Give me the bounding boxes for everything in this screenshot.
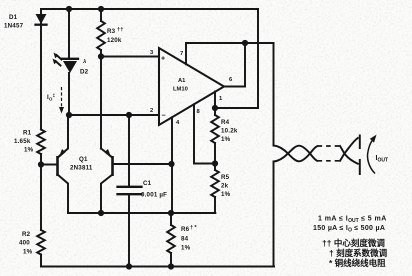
svg-text:D2: D2	[80, 69, 89, 76]
node junction D2 / left emitter / -input	[66, 112, 72, 118]
wire twisted pair lower-left column	[273, 162, 275, 267]
svg-text:Q1: Q1	[79, 156, 88, 163]
current arrow Iout	[368, 135, 377, 174]
wire collectors rail to R5	[68, 212, 215, 214]
op-amp A1 LM10 triangle	[159, 48, 224, 125]
label D1 1N457	[4, 14, 24, 30]
svg-text:R1: R1	[23, 130, 32, 137]
label R5 2k 1%	[221, 174, 231, 198]
node junction pin6 / pin7 wire	[242, 40, 248, 46]
resistor R6	[167, 213, 175, 267]
node junction collector rail / pin4-R6	[168, 210, 174, 216]
svg-text:84: 84	[181, 236, 189, 243]
svg-text:0.001 µF: 0.001 µF	[141, 192, 167, 199]
wire -input (pin 2)	[69, 114, 159, 116]
node junction pin1 / R4	[212, 105, 218, 111]
label R1 1.65k 1%	[14, 130, 34, 154]
svg-text:† *: † *	[190, 225, 197, 231]
node junction C1 / bottom rail	[126, 263, 132, 269]
label A1 LM10	[173, 78, 188, 93]
capacitor C1	[118, 115, 142, 267]
wire right column from top rail to pin1 node	[215, 9, 258, 108]
label minus input	[162, 113, 166, 120]
svg-text:7: 7	[180, 51, 183, 57]
svg-text:C1: C1	[143, 180, 152, 187]
svg-text:10.2k: 10.2k	[221, 128, 238, 135]
resistor R5	[211, 164, 219, 214]
note output current range	[318, 216, 387, 225]
wire +input (pin 3)	[101, 56, 159, 58]
node junction R4 / R5 / pin8	[212, 160, 218, 166]
wire pin 6 output	[224, 43, 245, 87]
label R2 400 1%	[19, 231, 33, 256]
node junction R3 / +input	[98, 53, 104, 59]
label pin 7	[180, 51, 183, 57]
label D2	[80, 69, 89, 76]
node junction right base / pin4 column	[168, 161, 174, 167]
wire pin 8	[194, 104, 215, 163]
svg-text:†† 中心刻度微调: †† 中心刻度微调	[322, 238, 385, 248]
svg-text:* 铜线绕线电阻: * 铜线绕线电阻	[329, 258, 386, 268]
svg-text:120k: 120k	[107, 37, 122, 44]
wire pin 7 riser	[185, 43, 187, 64]
wire left rail (V+ column)	[40, 9, 42, 267]
svg-text:2N3811: 2N3811	[70, 165, 93, 172]
label R6 dagger asterisk 84 1%	[181, 225, 197, 252]
wire Q1 left base	[41, 164, 58, 166]
wire D2 branch column	[68, 9, 70, 115]
label pin 3	[150, 50, 154, 56]
svg-text:−: −	[162, 113, 166, 120]
svg-text:400: 400	[19, 240, 30, 247]
svg-text:R3: R3	[107, 28, 116, 35]
wire feedback top horizontal (pin7 to twisted pair column)	[186, 42, 274, 44]
svg-text:R2: R2	[22, 231, 31, 238]
note Io current range	[313, 225, 385, 234]
svg-text:††: ††	[117, 27, 123, 33]
svg-text:R6: R6	[181, 226, 190, 233]
twisted pair wires	[274, 146, 318, 162]
Q1 left emitter with arrow	[58, 115, 69, 158]
svg-text:λ: λ	[82, 59, 86, 65]
label pin 8	[197, 109, 201, 115]
twisted pair right section	[340, 138, 358, 164]
svg-text:1%: 1%	[23, 249, 33, 256]
node junction R6 / bottom rail	[168, 263, 174, 269]
wire top supply rail	[41, 8, 258, 10]
label plus input	[161, 56, 165, 63]
wire pin 4 down	[171, 117, 172, 213]
note asterisk wirewound resistor	[329, 258, 386, 268]
wire pin 1	[214, 92, 216, 109]
Q1 left collector	[58, 175, 69, 214]
wire bottom return rail	[41, 266, 274, 268]
node junction R1 / Q1 base	[38, 161, 44, 167]
node junction C1 column / -input	[126, 112, 132, 118]
svg-text:1.65k: 1.65k	[14, 138, 31, 145]
svg-text:LM10: LM10	[173, 87, 188, 93]
node junction top rail / D2	[66, 6, 72, 12]
svg-text:A1: A1	[178, 78, 186, 84]
resistor R1	[37, 130, 45, 155]
svg-text:1%: 1%	[24, 147, 34, 154]
note dagger scale factor trim	[329, 248, 388, 258]
label pin 6	[229, 77, 233, 83]
label R4 10.2k 1%	[221, 119, 238, 143]
transistor Q1 left half (base bar)	[56, 156, 59, 176]
label lambda	[82, 59, 86, 65]
wire twisted pair upper-left column	[273, 43, 275, 146]
label Io	[47, 93, 56, 102]
svg-text:† 刻度系数微调: † 刻度系数微调	[329, 248, 388, 258]
svg-text:D1: D1	[9, 14, 18, 21]
transistor Q1 right half (base bar)	[111, 156, 114, 176]
svg-text:1%: 1%	[181, 245, 191, 252]
label pin 4	[176, 120, 180, 126]
label Iout	[376, 155, 389, 164]
wire Q1 right base to pin4 column	[113, 163, 172, 165]
resistor R3	[97, 9, 105, 57]
label pin 2	[150, 108, 153, 114]
svg-text:1%: 1%	[221, 136, 231, 143]
svg-text:+: +	[161, 56, 165, 63]
label Q1 2N3811	[70, 156, 93, 172]
diode D2 (photo)	[62, 59, 78, 73]
current arrow Io (dashed)	[59, 87, 64, 114]
svg-text:2k: 2k	[221, 183, 229, 190]
svg-text:R5: R5	[221, 174, 230, 181]
diode D1 1N457	[36, 14, 47, 25]
label C1 0.001 uF	[141, 180, 167, 199]
svg-text:R4: R4	[221, 119, 230, 126]
label R3 dagger-dagger 120k	[107, 27, 123, 44]
node junction right collector	[98, 210, 104, 216]
svg-text:1N457: 1N457	[4, 23, 24, 30]
node junction top rail / R3	[98, 6, 104, 12]
twisted pair dashed middle	[318, 146, 341, 161]
photo arrows of D2	[53, 53, 62, 66]
Q1 right collector	[101, 175, 113, 214]
twisted pair end ticks	[359, 136, 361, 175]
wire R3 column down to Q1 right emitter	[100, 57, 102, 149]
resistor R4	[211, 108, 219, 164]
Q1 right emitter with arrow	[101, 149, 113, 159]
resistor R2	[37, 230, 45, 255]
svg-text:2: 2	[150, 108, 153, 114]
note dagger-dagger center scale trim	[322, 238, 385, 248]
svg-text:1%: 1%	[221, 191, 231, 198]
label pin 1	[219, 96, 223, 102]
